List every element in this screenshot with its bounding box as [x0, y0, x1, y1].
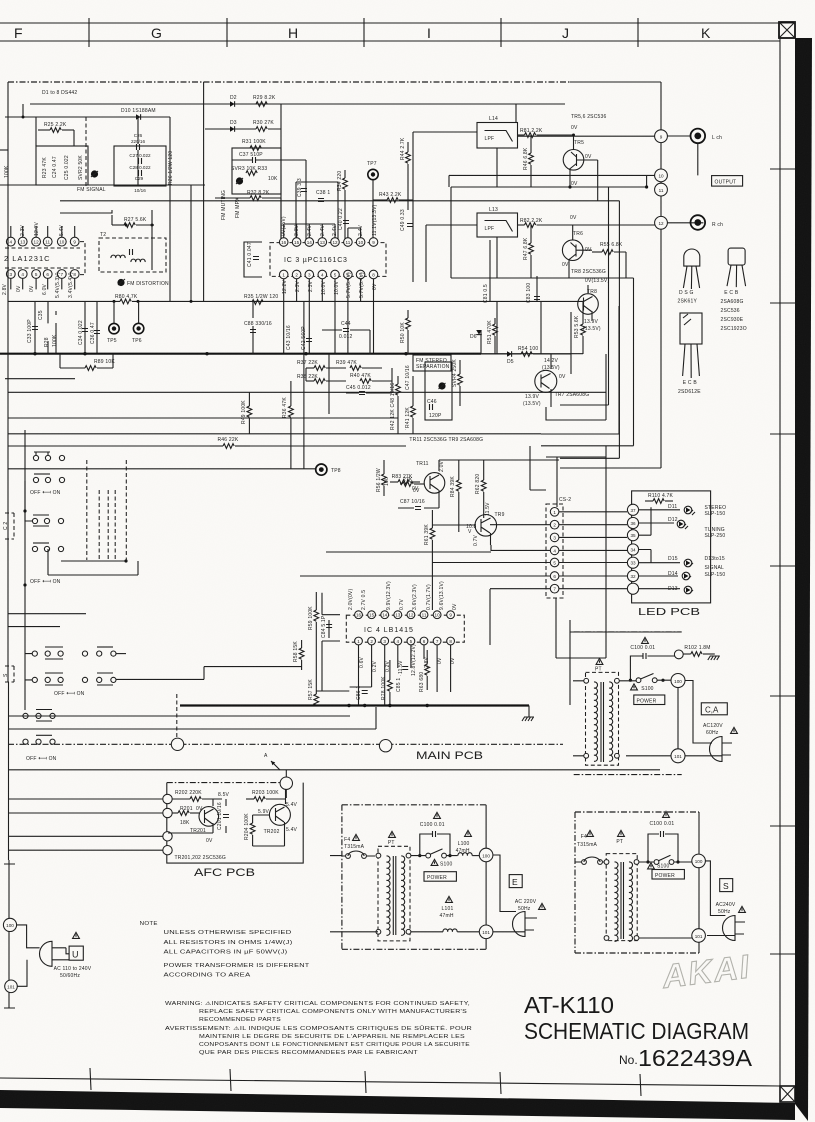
resistor R55 [592, 250, 626, 278]
IC2 pin 7 [57, 270, 66, 279]
wire afc mid [168, 799, 226, 833]
resistor R84 vertical [456, 460, 461, 532]
resistor R53 vertical [581, 312, 586, 354]
label 10.8V [466, 524, 477, 535]
box ic4 left loop [322, 593, 340, 691]
wire bus y200.8 [60, 201, 619, 459]
wire R27 down [60, 210, 152, 270]
plug E [513, 912, 535, 937]
wire C45 row [306, 368, 392, 393]
capacitor C100 E [433, 831, 436, 837]
border: header tick F/G [88, 18, 90, 47]
IC2 pin 4 [6, 237, 15, 246]
label L100 47mH (E) [456, 830, 472, 854]
LED D13 [668, 586, 693, 594]
resistor R61 vertical [430, 510, 435, 610]
connector CS-2 dashed box [546, 504, 563, 598]
box AFC PCB body [167, 783, 303, 864]
node dot x25 y585 [23, 583, 26, 586]
box R23/C24/C25/SVR2 [36, 146, 88, 185]
border: bottom tick 5 [640, 1074, 641, 1096]
IC3 pin 5 [331, 270, 340, 279]
label AC120V 60Hz [703, 723, 737, 736]
wire IC3 top pins up [284, 224, 361, 238]
jack L ch [691, 129, 706, 144]
wire E left stub [330, 856, 378, 932]
border: bottom tick 3 [365, 1071, 366, 1093]
main pcb dash-dot bottom bus [8, 743, 563, 745]
wire x556 down [556, 598, 606, 658]
IC4 pin 8 [447, 637, 455, 645]
IC4 pin voltage labels [348, 581, 458, 676]
resistor R51 vertical [493, 318, 498, 354]
label PT S [616, 830, 624, 845]
vertical dash-dot x86 [85, 117, 87, 187]
wire D2 row [210, 104, 281, 244]
border: bottom-right X box [780, 1086, 795, 1102]
wire bus y187 [451, 187, 647, 405]
wire C44 row [322, 330, 370, 354]
IC4 pin 9 [447, 611, 455, 619]
wire dash into junction [176, 694, 178, 738]
node dot sw [23, 509, 26, 512]
node dots bus [33, 352, 407, 355]
capacitor C28 [139, 170, 142, 176]
potentiometer FM distortion disc [117, 279, 124, 286]
border: bottom tick 2 [230, 1069, 231, 1091]
capacitor C87 [415, 507, 421, 510]
transformer T2 dashed box [99, 238, 166, 272]
border: right tick 7 [770, 953, 795, 955]
S section dash box [575, 812, 699, 953]
node dot TR5 emitter [568, 185, 571, 188]
wire vertical x191 [190, 185, 192, 302]
wire IC3 bottom pins down [284, 279, 374, 354]
switch S100 S [646, 855, 679, 864]
wire C100 E loop [420, 834, 450, 856]
main PCB dash-dot top border [8, 81, 570, 83]
vertical dash-dot columns [87, 460, 127, 561]
border: header tick G/H [226, 18, 228, 47]
ground main bus [522, 717, 534, 721]
wire y446 [8, 445, 406, 447]
potentiometer SVR4 disc [438, 382, 445, 389]
capacitor C85 [402, 667, 408, 670]
transformer PT CA terminals [584, 678, 620, 758]
wire y627 [8, 626, 60, 628]
IC3 pin 1 [279, 270, 288, 279]
U section frame [4, 860, 15, 1008]
label C-2 bracket [3, 513, 14, 539]
connector CS2 pin5 [550, 558, 559, 567]
wire verticals C33 group [35, 301, 97, 353]
label STEREO SLP-150 [705, 505, 727, 517]
transformer PT S coil primary [615, 862, 619, 941]
resistor R204 vertical [250, 815, 255, 846]
wire top bus y104 [30, 103, 565, 105]
box E [509, 875, 522, 888]
IC2 pin 4b [18, 270, 27, 279]
wire plug S [705, 861, 745, 936]
wire sw out y575 [48, 549, 138, 575]
label PT CA [595, 658, 603, 672]
border: bottom black bar [0, 1090, 795, 1120]
wire sw3 out [116, 667, 302, 680]
resistor R57 vertical [314, 694, 319, 705]
wire 9 to jack [516, 104, 698, 175]
E section dash box [342, 805, 486, 950]
resistor R27 [112, 223, 154, 228]
capacitor C39 [301, 189, 307, 192]
resistor R39 [350, 366, 382, 371]
connector CS2 pin1 [550, 508, 559, 517]
resistor R110 [645, 499, 673, 504]
wire y688 [316, 687, 371, 691]
box FM STEREO SEPARATION [413, 355, 451, 371]
connector CS2 pin7 [550, 584, 559, 593]
label AC 110 to 240V 50/60Hz [54, 966, 92, 979]
connector 101 U [5, 980, 18, 993]
resistor R36 vertical [289, 381, 294, 469]
wire CA right rail [677, 688, 679, 750]
box OUTPUT [712, 176, 743, 187]
connector 9 [655, 130, 668, 143]
wire tr911 top [439, 459, 559, 461]
switch S100 E [418, 849, 451, 858]
label C100 0.01 (E) [420, 812, 445, 828]
IC4 pin 2 [368, 637, 376, 645]
wires cs2 left stubs [300, 525, 550, 645]
diode D6 [476, 330, 482, 335]
wire vertical x253 [252, 302, 254, 354]
transistor TR5 [563, 136, 598, 201]
box POWER S [652, 870, 684, 880]
IC2 under-pin voltage labels [2, 272, 74, 298]
capacitor C100 S [661, 831, 664, 837]
transistor TR202 [269, 789, 290, 834]
LED D14 [668, 571, 691, 580]
transformer PT E terminals [376, 853, 411, 934]
wires cs2 to led pcb [559, 512, 627, 589]
resistor R42 vertical [396, 376, 401, 434]
diode D2 [230, 101, 235, 107]
connector CS2 pin3 [550, 533, 559, 542]
resistor R41 vertical [411, 376, 416, 434]
node dots R27 [125, 224, 128, 227]
capacitor C27 [139, 158, 142, 164]
wire TP7 vertical [372, 180, 374, 242]
IC3 pin 13 [318, 238, 327, 247]
node dot sw2 [124, 559, 127, 562]
IC2 pin 12 [32, 237, 41, 246]
wire C100 CA loop [630, 656, 678, 680]
wire plug CA [626, 681, 732, 756]
resistor R47 vertical [529, 225, 534, 278]
label AC 220V 50Hz [515, 899, 545, 912]
capacitor C49 [407, 224, 413, 227]
wire plug E [493, 855, 537, 932]
test point TP7 [368, 169, 378, 179]
wire sw3 out2 [116, 653, 126, 655]
wire vertical x203 [203, 82, 205, 302]
filter L14 LPF box [477, 123, 518, 149]
left rail x25 [24, 430, 26, 710]
IC4 pin 7 [433, 637, 441, 645]
inductor L100 E [458, 853, 472, 856]
IC2 pin 8 [70, 270, 79, 279]
wire U to box [66, 948, 69, 960]
resistor R89 [60, 354, 113, 370]
border: header tick I/J [500, 18, 502, 47]
wire bus to gnd [528, 706, 530, 718]
border: bottom tick 1 [90, 1068, 91, 1090]
plug U [40, 941, 62, 966]
bold bus y705.5 [180, 704, 529, 706]
switch group4 row1 [23, 710, 55, 722]
wire x570 down to power [570, 620, 678, 705]
CA section top dash border [574, 631, 682, 633]
wire vertical x329 [328, 354, 330, 414]
potentiometer SVR2 disc [91, 170, 98, 177]
IC3 under-pin voltage labels [282, 272, 378, 298]
big box edge y446-606 [400, 446, 606, 620]
resistor R82 [518, 223, 573, 228]
IC3 pin 4 [318, 270, 327, 279]
box U [69, 946, 83, 960]
wire E top row [411, 855, 458, 857]
connector LED pin blank [627, 583, 638, 594]
label F4 T315mA (S) [577, 830, 598, 848]
IC4 dashed body [346, 615, 464, 642]
wire S bottom row [639, 937, 692, 939]
wire LPF14 in [413, 132, 477, 200]
IC4 pin 16 [355, 611, 363, 619]
capacitor C37 [253, 157, 256, 163]
IC3 pin 7 [356, 270, 365, 279]
switch group2 row1 [25, 481, 64, 526]
wire y614 [8, 613, 86, 615]
label 13.9V (13.5V) tr7 [523, 394, 541, 407]
fuse F4 E [342, 851, 375, 858]
border: header tick H/I [363, 18, 365, 47]
wire A to junction [285, 770, 287, 777]
label S-1 bracket [3, 666, 14, 682]
wire bus y117 [5, 104, 170, 117]
safety triangle U [73, 932, 80, 938]
test point TP8 [316, 464, 327, 475]
capacitor C44 [343, 329, 349, 332]
wire sw out y561 [61, 560, 126, 562]
wire ic4 pins down [359, 645, 451, 705]
transistor TR201 [199, 799, 219, 833]
LED D15 [668, 556, 693, 567]
resistor R46 vertical [529, 135, 534, 187]
test point TP6 [133, 301, 143, 334]
IC2 pin 9 [70, 237, 79, 246]
wire tr11 base row [398, 502, 439, 508]
IC4 pin 5 [407, 637, 415, 645]
wire cs2 upper loop [530, 446, 606, 507]
resistor R88 [400, 482, 424, 487]
filter L13 LPF box [477, 213, 518, 237]
border: right tick 4 [770, 565, 795, 567]
node dots y705 [347, 704, 429, 707]
package 2SK61Y outline [683, 249, 699, 289]
border: right tick 2 [770, 302, 795, 304]
resistor R50 vertical [406, 310, 411, 354]
IC3 pin 16 [279, 238, 288, 247]
transformer PT S core [621, 862, 624, 939]
switch group4 row2 [23, 735, 55, 744]
transistor TR8 [578, 294, 599, 315]
label S100 CA [631, 684, 654, 692]
IC3 pin 15 [292, 238, 301, 247]
wire C26 feed [137, 117, 139, 185]
resistor R38 [306, 379, 346, 384]
connector CS2 pin2 [550, 520, 559, 529]
potentiometer SVR3 disc [236, 177, 243, 184]
label TUNING SLP-250 [705, 527, 726, 539]
wire IC3 pins top bus [284, 224, 361, 228]
wire y552 [326, 551, 491, 553]
connector 10 [655, 169, 668, 182]
wire y434 long [8, 433, 541, 435]
wire bus y301 [8, 240, 583, 354]
transistor TR9 [475, 515, 497, 546]
wire LPF13 out bottom [496, 237, 498, 278]
connector 100 S [692, 854, 706, 868]
wire CA primary left [573, 681, 584, 756]
capacitor C33 [32, 327, 38, 330]
wire y469 TP8 [8, 468, 316, 470]
node dots y301 [113, 300, 193, 303]
capacitor in T2 [130, 249, 133, 255]
capacitor C26 [137, 144, 140, 150]
wire plug U [17, 925, 66, 986]
transformer PT E coil primary [387, 856, 391, 935]
wire y418 long [8, 417, 398, 419]
box POWER E [424, 872, 456, 882]
safety triangle C100 CA [642, 637, 649, 643]
wire 10/11 to output [449, 175, 655, 187]
IC3 pin 2 [292, 270, 301, 279]
jack R ch [691, 215, 706, 230]
resistor R34 vertical [343, 170, 348, 242]
label S100 E [431, 859, 452, 867]
connector CS2 pin4 [550, 546, 559, 555]
label PT E [388, 831, 396, 846]
IC2 pin 5 [32, 270, 41, 279]
resistor R29 [256, 102, 267, 107]
capacitor C36 [94, 331, 100, 334]
wire D3 row [205, 128, 281, 130]
resistor R43 [373, 198, 413, 203]
LED D11 [668, 504, 695, 515]
border: bottom thin rule [0, 1078, 780, 1086]
box SVR3 group [232, 148, 281, 194]
border: right tick 3 [770, 433, 795, 435]
connector LED pin37 [627, 504, 638, 515]
IC4 pin 11 [420, 611, 428, 619]
resistor R62 vertical [481, 460, 486, 518]
fuse F4 S [575, 857, 607, 864]
resistor R201 [172, 811, 199, 816]
resistor R46b [210, 444, 250, 449]
wire x413 vertical [412, 200, 414, 282]
resistor R102 [679, 652, 715, 657]
IC4 pin 10 [433, 611, 441, 619]
transformer PT CA coil secondary [609, 682, 613, 761]
resistor R30 [256, 127, 267, 132]
wire L100 to 100 [472, 855, 479, 857]
wire tr9 base [432, 524, 475, 526]
transformer PT E dashed box [378, 846, 410, 941]
IC4 pin 12 [407, 611, 415, 619]
wire CA top row [619, 679, 671, 682]
left rail x8 [7, 82, 10, 860]
connector AFC pin a [163, 794, 172, 803]
junction circle left [171, 738, 183, 750]
IC4 pin 3 [381, 637, 389, 645]
switch group1 row1 [33, 452, 64, 461]
transformer PT S coil secondary [629, 862, 633, 941]
label L101 47mH (E) [440, 896, 454, 919]
wire y392 long [8, 391, 606, 393]
connector 100 U [3, 918, 16, 931]
IC4 pin 15 [368, 611, 376, 619]
resistor R40 [360, 379, 392, 384]
IC3 pin 10 [356, 238, 365, 247]
transformer PT CA core lines [601, 682, 604, 762]
capacitor C100 CA [643, 653, 646, 659]
wire IC2 pin stubs [11, 226, 75, 289]
wire LPF13 in [426, 225, 477, 282]
box POWER CA [634, 695, 665, 705]
box C,A [701, 703, 727, 715]
capacitor C88 [250, 330, 256, 333]
resistor R54 [481, 352, 571, 357]
switch group3 row1 [25, 647, 116, 659]
border: right tick 1 [770, 168, 795, 170]
connector 100 E [479, 848, 493, 862]
connector LED pin34 [627, 544, 638, 555]
resistor R58 vertical [299, 640, 304, 670]
IC2 pin 6 [43, 270, 52, 279]
connector LED pin32 [627, 570, 638, 581]
diode D10 [136, 114, 141, 120]
label D13 to 15 SIGNAL SLP-150 [705, 556, 726, 578]
IC2 pin 11 [43, 237, 52, 246]
wire R31 row [232, 147, 281, 149]
border: right black bar [795, 38, 812, 1121]
output bus vertical x661 [560, 82, 661, 468]
switch S100 CA [629, 674, 665, 683]
E right bold edge [485, 805, 487, 950]
junction circle R102 [674, 650, 683, 659]
connector 101 CA [671, 749, 685, 763]
box C38/C39 [296, 182, 338, 242]
wire left stub y150 [0, 149, 8, 151]
wire bus y185 [0, 184, 205, 186]
transformer PT E coil secondary [401, 856, 405, 935]
scan noise overlay [0, 0, 1, 1]
node dot [22, 116, 25, 119]
switch group3 row2 [25, 673, 116, 685]
diode D5 [507, 351, 512, 357]
label S100 S [648, 863, 670, 870]
IC2 pin 3 [6, 270, 15, 279]
connector LED pin35 [627, 530, 638, 541]
